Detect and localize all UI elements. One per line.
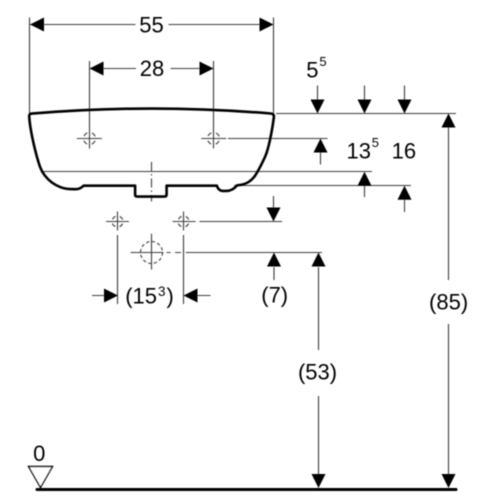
svg-text:16: 16 — [392, 138, 416, 163]
svg-text:55: 55 — [139, 13, 163, 38]
svg-text:(53): (53) — [298, 360, 337, 385]
svg-text:28: 28 — [140, 56, 164, 81]
svg-text:135: 135 — [347, 135, 380, 164]
svg-text:(153): (153) — [125, 284, 174, 309]
svg-text:0: 0 — [33, 441, 45, 466]
svg-text:(7): (7) — [261, 283, 288, 308]
svg-text:(85): (85) — [429, 290, 468, 315]
svg-text:55: 55 — [306, 54, 326, 83]
